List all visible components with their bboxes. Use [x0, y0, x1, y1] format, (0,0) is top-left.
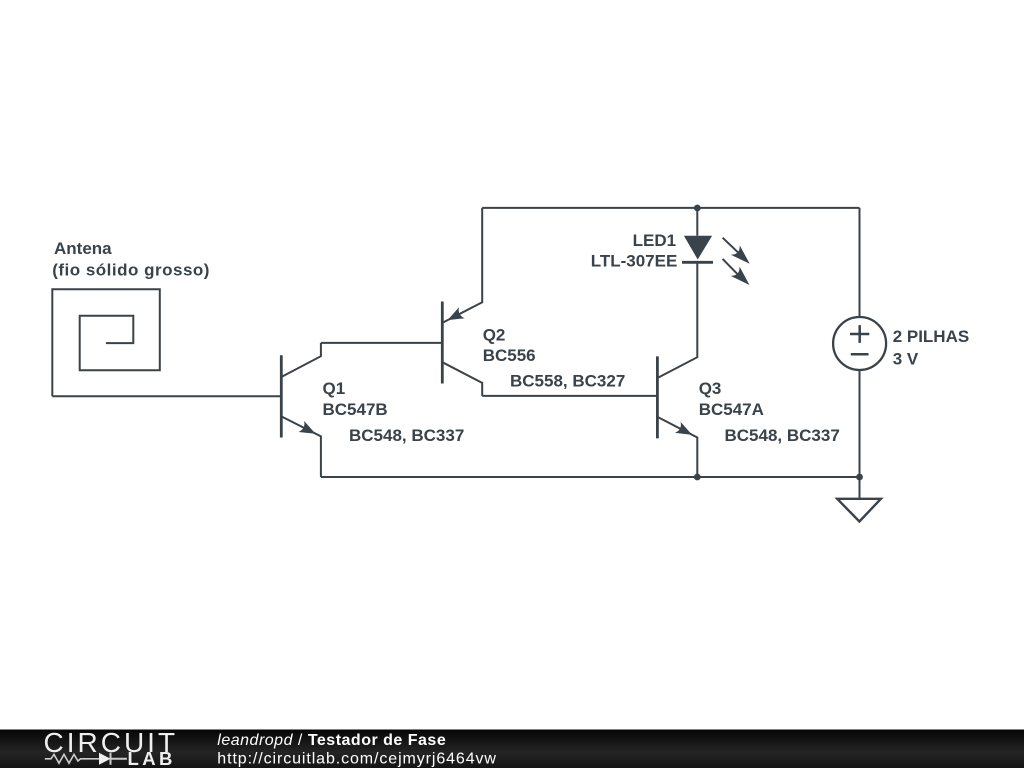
top rail wire [482, 207, 859, 209]
svg-text:LAB: LAB [128, 748, 176, 768]
battery V1 bottom wire [859, 371, 861, 477]
transistor Q2 emitter arrow (PNP, pointing to base) [448, 307, 465, 320]
junction node at LED top [694, 205, 701, 212]
bottom rail wire [321, 476, 860, 478]
transistor Q2 collector diagonal [442, 362, 482, 396]
svg-text:http://circuitlab.com/cejmyrj6: http://circuitlab.com/cejmyrj6464vw [217, 751, 497, 768]
transistor Q1 base bar [280, 355, 283, 437]
LED1 cathode bar [682, 261, 713, 264]
battery V1 minus sign [851, 353, 869, 356]
transistor Q2 emitter diagonal [442, 208, 482, 323]
transistor Q1 collector diagonal [281, 343, 321, 377]
wire Q1 collector to Q2 base [321, 342, 442, 344]
svg-text:3 V: 3 V [893, 349, 919, 368]
svg-text:BC548, BC337: BC548, BC337 [725, 426, 840, 445]
svg-text:LED1: LED1 [633, 231, 676, 250]
transistor Q2 base bar [441, 302, 444, 384]
svg-text:2 PILHAS: 2 PILHAS [893, 327, 970, 346]
transistor Q1 emitter arrow [299, 421, 316, 434]
svg-text:leandropd / Testador de Fase: leandropd / Testador de Fase [217, 732, 446, 749]
transistor Q3 emitter arrow [675, 422, 692, 435]
svg-text:BC556: BC556 [483, 346, 536, 365]
svg-text:Q2: Q2 [483, 326, 506, 345]
CircuitLab logo resistor zigzag and diode [45, 753, 127, 765]
battery V1 plus sign [850, 325, 869, 343]
transistor Q3 base bar [656, 356, 659, 438]
battery V1 top wire [859, 208, 861, 316]
svg-text:BC558, BC327: BC558, BC327 [510, 372, 625, 391]
wire antenna to Q1 base [52, 395, 281, 397]
svg-text:BC547B: BC547B [323, 400, 388, 419]
LED1 light arrow 1 [723, 238, 742, 256]
ground symbol [837, 499, 881, 522]
svg-text:Antena: Antena [54, 239, 112, 258]
LED1 wire from top rail [696, 208, 698, 236]
svg-text:(fio sólido grosso): (fio sólido grosso) [52, 261, 210, 280]
LED1 light arrow 2 [723, 259, 741, 277]
transistor Q3 collector diagonal [657, 262, 697, 378]
junction node at battery bottom [856, 474, 863, 481]
junction node at Q3 emitter [694, 474, 701, 481]
transistor Q3 emitter diagonal [657, 417, 697, 477]
LED1 anode triangle [684, 236, 712, 260]
svg-text:Q1: Q1 [323, 379, 346, 398]
ground wire [859, 477, 861, 499]
svg-text:BC548, BC337: BC548, BC337 [349, 426, 464, 445]
wire Q2 collector to Q3 base [482, 395, 657, 397]
antenna ANT1 spiral [52, 289, 160, 396]
svg-text:BC547A: BC547A [699, 400, 764, 419]
svg-text:Q3: Q3 [699, 379, 722, 398]
svg-text:LTL-307EE: LTL-307EE [591, 252, 678, 271]
battery V1 circle [833, 317, 886, 370]
transistor Q1 emitter diagonal [281, 416, 321, 477]
